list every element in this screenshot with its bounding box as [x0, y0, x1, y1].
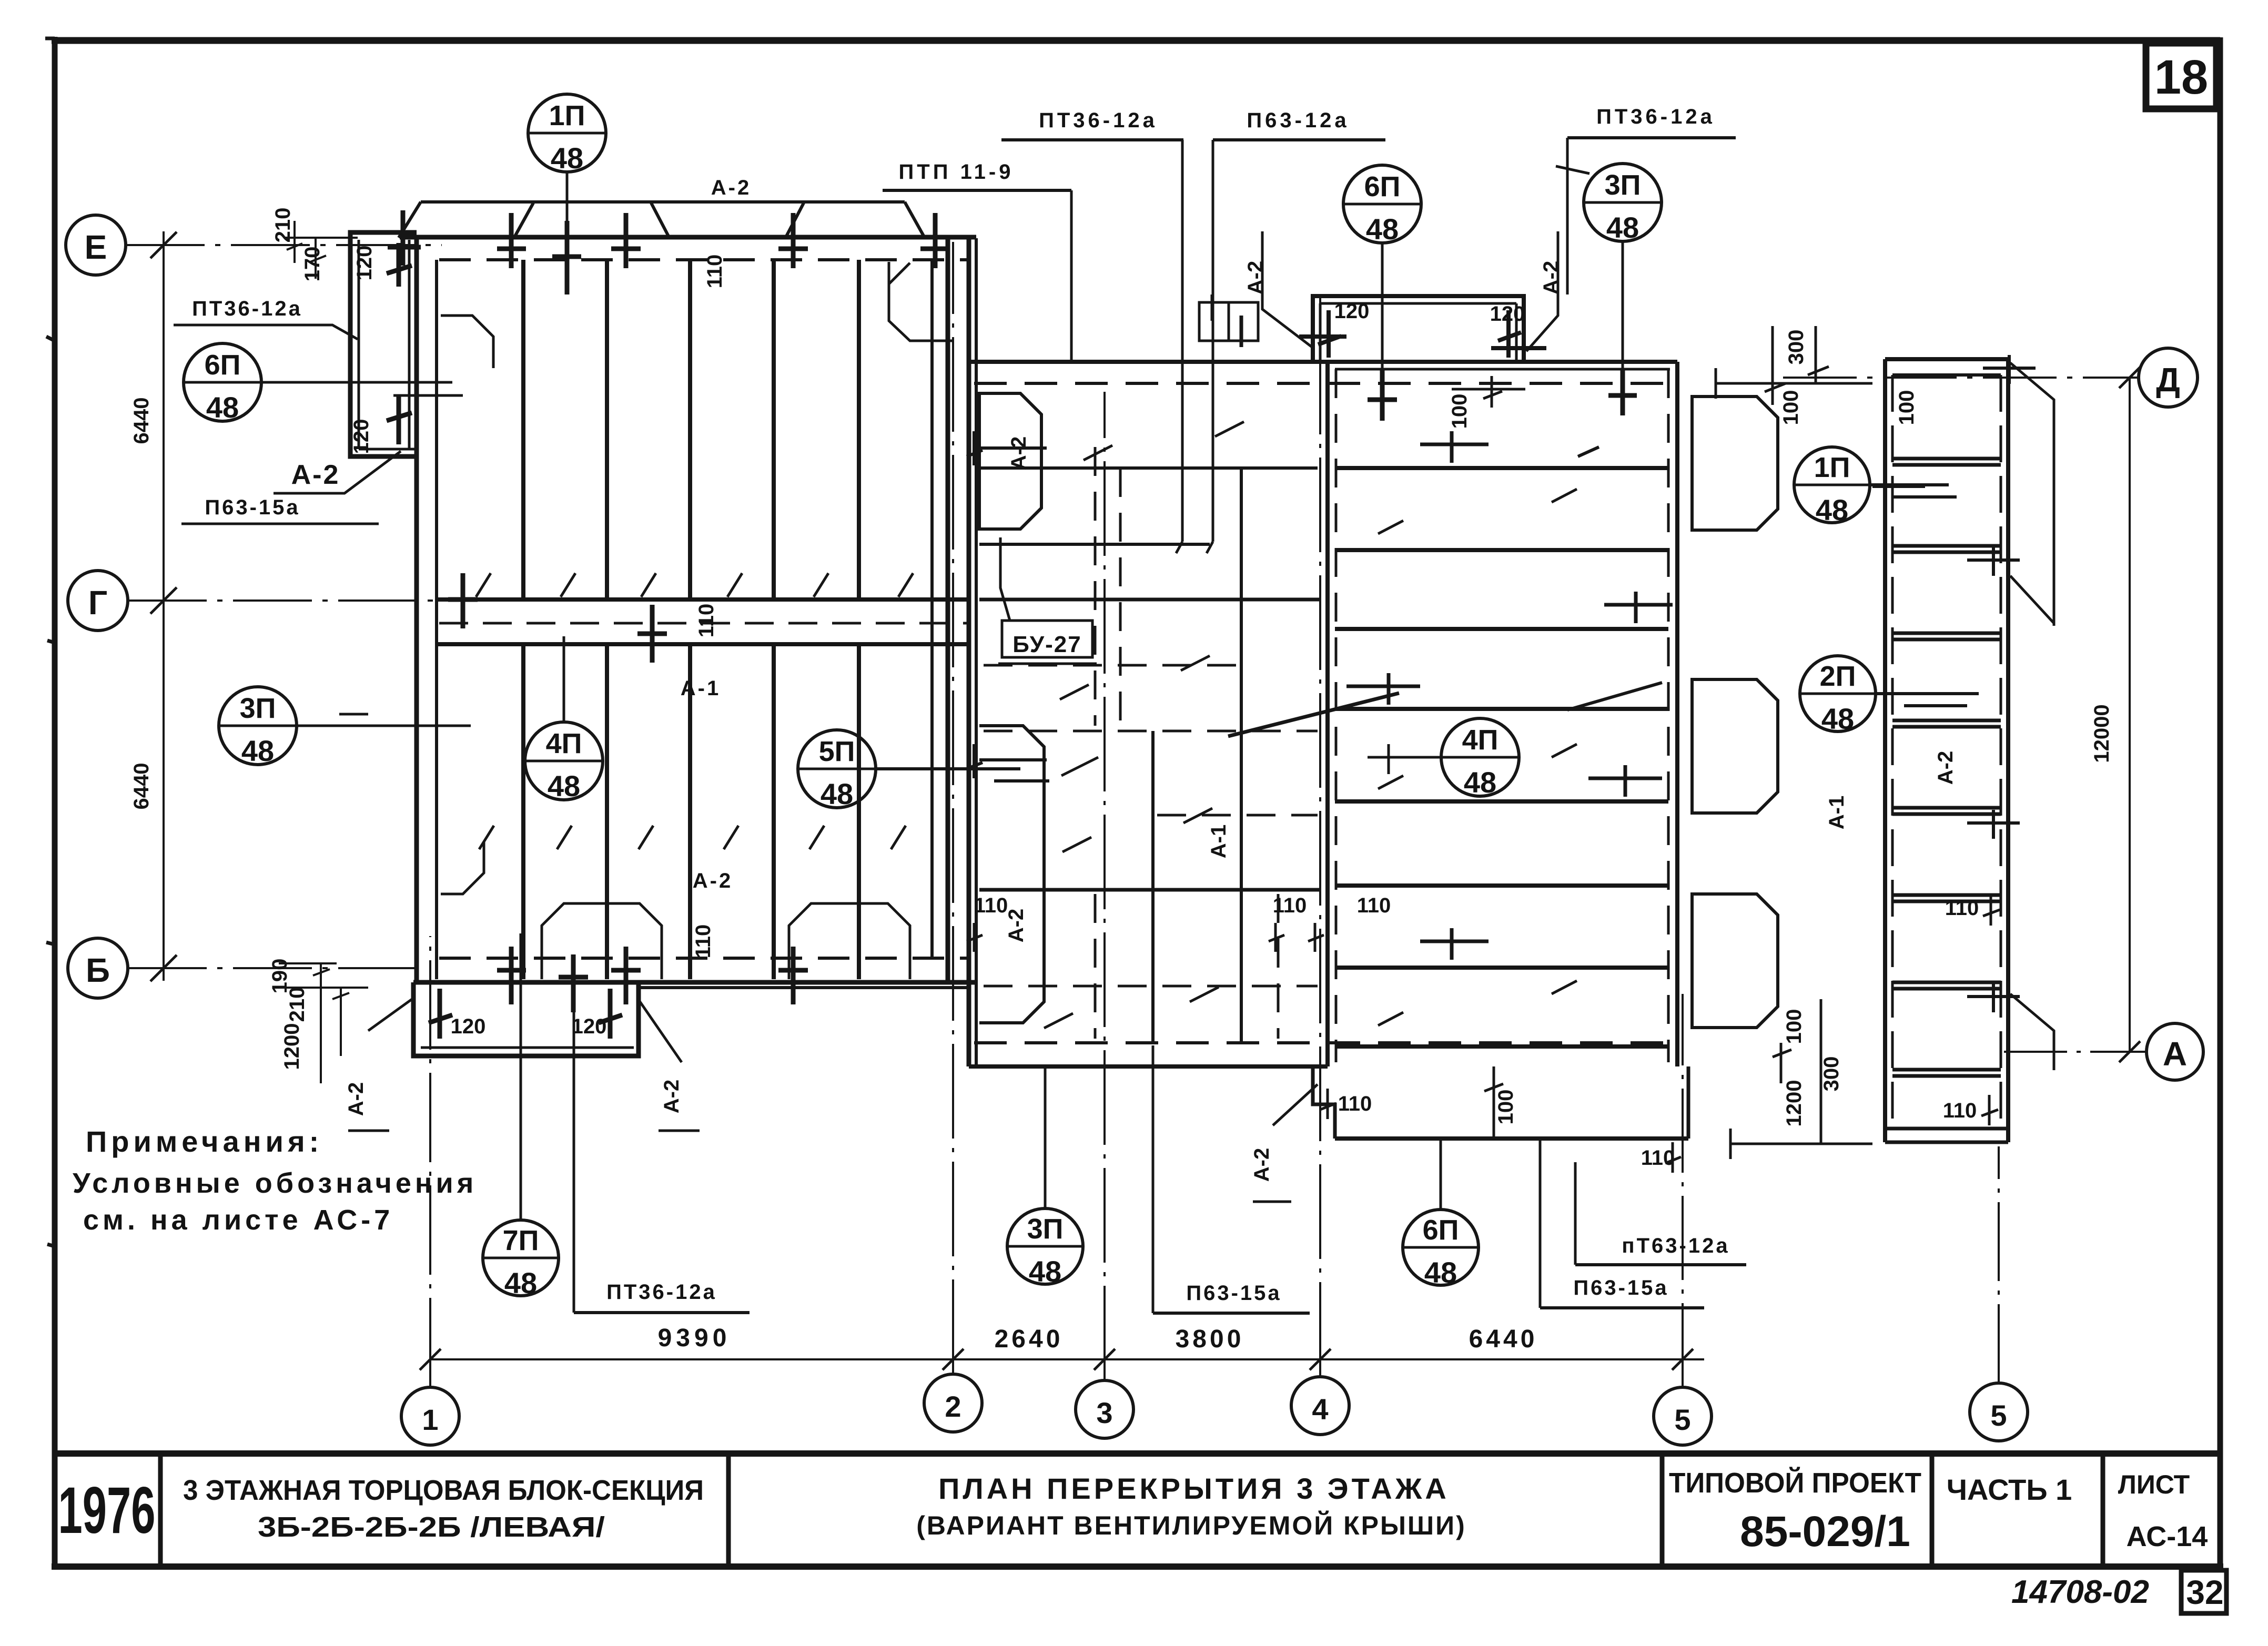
protrusion hatch right [599, 989, 622, 1039]
leader ПТП 11-9 [1070, 190, 1073, 362]
rung tick 4 [1967, 810, 2020, 839]
panel joint v4 [772, 260, 776, 979]
svg-text:А-2: А-2 [1007, 436, 1030, 470]
svg-text:120: 120 [1490, 302, 1525, 326]
bottom band right end [1687, 1066, 1690, 1139]
dim line top right [1716, 326, 1872, 405]
axis circle Д [2139, 348, 2198, 407]
rung tick 3 [1872, 485, 1925, 488]
title block top line [55, 1450, 2220, 1457]
panel joint v1 [521, 260, 525, 979]
roof joint slant 1 [514, 203, 533, 237]
leader ПТ36-12а bottom [573, 1012, 575, 1313]
svg-text:Примечания:: Примечания: [86, 1125, 323, 1158]
small box ticks [1212, 294, 1241, 347]
svg-text:4П: 4П [546, 728, 582, 759]
axis circle Е [66, 215, 126, 275]
vertical joint solid [1240, 468, 1243, 1043]
rung 2 [1892, 546, 2001, 552]
circle 7П [483, 1220, 559, 1296]
svg-text:1200: 1200 [1783, 1080, 1806, 1127]
chamfer diagonal 2 [2010, 576, 2054, 623]
svg-text:85-029/1: 85-029/1 [1740, 1508, 1910, 1556]
svg-text:4П: 4П [1462, 724, 1498, 756]
underline А-2 strip leader [274, 451, 401, 493]
right dim line 12000 [2129, 378, 2131, 1052]
rung 4 [1892, 720, 2001, 727]
circle 1П right [1794, 447, 1870, 523]
grid 4 leader [1319, 294, 1321, 1377]
right edge dashed [1667, 369, 1670, 1062]
dashed vertical 2 [1119, 468, 1122, 731]
ladder top outer [1885, 357, 2008, 361]
anchor tick b1 [497, 947, 526, 1004]
roof joint slant 3 [786, 203, 804, 237]
TITLE BLOCK [55, 1454, 2226, 1613]
rung 5 [1892, 808, 2001, 814]
leader 5П [876, 769, 1049, 781]
anchor tick t3 [552, 221, 581, 294]
LEFT BLOCK [174, 94, 1049, 1066]
svg-text:3: 3 [1096, 1396, 1112, 1429]
RIGHT BLOCK [1250, 362, 1688, 1202]
border top [52, 37, 2220, 44]
roof trapezoid left slant [399, 202, 421, 238]
dashed row 3 [984, 730, 1318, 733]
svg-text:100: 100 [1448, 394, 1471, 429]
leader П63-15а bottom2 [1539, 1140, 1542, 1308]
long diagonal 2 [1061, 757, 1098, 776]
dashed row 4 [984, 985, 1318, 988]
cell divider 5 [2101, 1454, 2105, 1567]
slash marks right block [1378, 489, 1577, 1025]
top wall [400, 235, 976, 240]
dim lines bottom right [1730, 999, 1872, 1159]
chamfer panel А-2 bottom [979, 726, 1044, 1023]
leader 1П right [1870, 485, 1957, 497]
edge tick r3 [1346, 673, 1420, 705]
right edge outer [1675, 362, 1679, 1066]
floor joint h5 [1335, 799, 1668, 804]
chamfer panel bottom left [542, 903, 662, 979]
DIMENSIONS [130, 231, 2140, 1370]
BOTTOM LABELS [1007, 1045, 1746, 1313]
svg-text:3П: 3П [1605, 169, 1641, 201]
underline пТ63-12а bottom [1575, 1263, 1746, 1266]
tick 110 ladder 1 [1983, 894, 2000, 926]
leader 4П left [563, 636, 565, 722]
bottom edge [969, 1064, 1328, 1069]
axis circle Г [68, 571, 128, 631]
svg-text:П63-12а: П63-12а [1247, 109, 1349, 132]
svg-text:110: 110 [1943, 1099, 1977, 1122]
floor joint h8 [1335, 1044, 1668, 1049]
svg-text:110: 110 [692, 924, 715, 959]
hex panel 3 [1692, 894, 1778, 1028]
svg-text:12000: 12000 [2090, 704, 2113, 763]
underline ПТ36-12а bottom [574, 1311, 750, 1314]
protrusion hatch left [429, 989, 452, 1039]
ladder left inner [1891, 375, 1894, 1129]
bold tick 3П crossing [1608, 368, 1637, 415]
edge tick r1 [1420, 431, 1489, 463]
bold tick 6П crossing [1368, 368, 1397, 421]
rung tick 1 [1983, 355, 2036, 384]
AXIS MARKS [66, 215, 2203, 1445]
joint row 2 [979, 543, 1210, 546]
cell divider 2 [726, 1454, 731, 1567]
MIDDLE SECTION [639, 294, 1676, 1066]
bottom dim line [430, 1358, 1704, 1360]
svg-text:А-2: А-2 [291, 460, 340, 490]
leader 2П right [1876, 694, 1979, 706]
roof trapezoid right slant [905, 202, 925, 238]
strip inner bottom [359, 448, 416, 451]
svg-text:(ВАРИАНТ ВЕНТИЛИРУЕМОЙ КРЫШИ): (ВАРИАНТ ВЕНТИЛИРУЕМОЙ КРЫШИ) [916, 1510, 1466, 1540]
leader 3П bottom [1044, 1069, 1047, 1208]
dashed row 5 [984, 664, 1241, 667]
svg-text:А-2: А-2 [660, 1080, 683, 1113]
rung tick 5 [1967, 983, 2020, 1012]
HEX PANELS COLUMN [1692, 397, 1979, 1028]
svg-text:2: 2 [945, 1390, 961, 1423]
underline П63-15а left [181, 523, 379, 525]
svg-text:А-1: А-1 [1207, 825, 1230, 858]
chamfer panel А-2 top [979, 393, 1041, 529]
left dim line [163, 231, 165, 981]
dashed vertical 4 [1094, 894, 1097, 1039]
bottom wall dashed inner [439, 957, 970, 960]
box hatch right [1491, 310, 1546, 358]
BOTTOM PROTRUSION [268, 933, 750, 1313]
floor joint h7 [1335, 966, 1668, 970]
Г band top line [437, 597, 969, 602]
svg-text:Б: Б [86, 951, 110, 989]
NOTES [73, 1125, 477, 1236]
svg-text:Г: Г [88, 584, 107, 622]
arrow 3П [1556, 166, 1589, 174]
svg-text:ТИПОВОЙ ПРОЕКТ: ТИПОВОЙ ПРОЕКТ [1669, 1467, 1921, 1499]
floor joint h1 [1335, 466, 1668, 470]
floor joint h2 [1335, 548, 1668, 552]
circle 3П left [219, 687, 297, 765]
А axis dashed [974, 1041, 1676, 1044]
strip inner right [408, 240, 411, 449]
axis А line [2004, 1051, 2146, 1053]
slash marks middle [1044, 422, 1244, 1028]
tick ms right [1269, 923, 1324, 952]
ladder right outer [2006, 359, 2010, 1142]
leader ПТ36-12а top2 [1566, 138, 1569, 294]
circle 6П top [1343, 165, 1421, 243]
circle 4П right [1441, 718, 1519, 796]
underline ПТ36-12а top2 [1567, 136, 1736, 139]
svg-text:110: 110 [1945, 897, 1979, 920]
chamfer diagonal 3 [2010, 994, 2054, 1070]
underline П63-15а bottom2 [1540, 1306, 1704, 1309]
left wall outer [414, 236, 419, 982]
rung tick 2 [1967, 547, 2020, 576]
grid circle 2 [924, 1374, 982, 1432]
rung 7 [1892, 982, 2001, 989]
svg-text:3П: 3П [240, 693, 276, 724]
leader 1П [566, 172, 569, 238]
svg-text:210: 210 [286, 987, 309, 1022]
svg-text:А-2: А-2 [345, 1082, 368, 1116]
strip inner left [358, 240, 360, 449]
panel joint v2 [605, 260, 609, 979]
svg-text:120: 120 [350, 419, 373, 454]
leader А-2 below left [348, 998, 413, 1131]
svg-text:Условные обозначения: Условные обозначения [73, 1167, 477, 1199]
svg-text:48: 48 [206, 391, 239, 424]
svg-text:48: 48 [1464, 766, 1496, 799]
bottom notch [1313, 1066, 1335, 1139]
svg-text:300: 300 [1820, 1056, 1843, 1092]
svg-text:А-1: А-1 [681, 677, 721, 700]
svg-text:100: 100 [1494, 1090, 1517, 1125]
circle 3П top [1584, 164, 1662, 241]
page box 32 [2181, 1570, 2226, 1613]
svg-text:6440: 6440 [130, 398, 153, 444]
cell divider 3 [1660, 1454, 1665, 1567]
svg-text:48: 48 [1366, 212, 1399, 246]
left dim ticks [150, 232, 177, 981]
protrusion inner bottom [421, 1046, 634, 1049]
box hatch left [1299, 310, 1346, 358]
TOP PROTRUSION [1244, 231, 1563, 362]
right wall 3 [967, 238, 971, 1066]
circle 5П [798, 730, 876, 808]
svg-text:1П: 1П [549, 100, 585, 131]
tick 110 ladder 2 [1981, 1095, 1998, 1125]
cell divider 4 [1930, 1454, 1935, 1567]
svg-text:2640: 2640 [995, 1325, 1064, 1353]
panel joint v3 [688, 260, 692, 979]
chamfer panel top right [889, 262, 953, 341]
leader А-2 below right [637, 998, 700, 1131]
anchor tick b2 [559, 954, 588, 1012]
tick ms left [967, 923, 983, 952]
svg-text:110: 110 [1338, 1092, 1372, 1115]
svg-text:1976: 1976 [58, 1474, 156, 1547]
svg-text:ПТ36-12а: ПТ36-12а [192, 297, 302, 320]
grid circle 1 [401, 1387, 459, 1445]
svg-text:48: 48 [1606, 211, 1639, 244]
dim ticks bottom left [279, 963, 368, 1083]
grid circle 3 [1076, 1380, 1133, 1438]
svg-text:ПЛАН ПЕРЕКРЫТИЯ 3 ЭТАЖА: ПЛАН ПЕРЕКРЫТИЯ 3 ЭТАЖА [938, 1472, 1450, 1505]
left edge outer [1325, 362, 1330, 1066]
svg-text:14708-02: 14708-02 [2011, 1574, 2149, 1610]
strip hatch bottom [387, 394, 412, 444]
border right [2218, 37, 2223, 1569]
leader 6П bottom [1440, 1140, 1442, 1210]
svg-text:Е: Е [85, 228, 107, 266]
tick mid top [967, 431, 1047, 465]
box inner right [1515, 303, 1518, 362]
anchor tick g1 [448, 573, 478, 628]
anchor tick g2 [637, 605, 667, 663]
dashed vertical 3 [1277, 894, 1280, 1039]
underline ПТ36-12а left [174, 325, 358, 339]
БУ-27 leader [1000, 537, 1010, 621]
leader П63-15а bottom1 [1152, 1045, 1155, 1313]
svg-text:А-1: А-1 [1825, 796, 1848, 829]
svg-text:48: 48 [821, 777, 853, 810]
strip outline [350, 232, 417, 456]
svg-text:2П: 2П [1820, 661, 1856, 692]
svg-text:100: 100 [1895, 390, 1918, 425]
svg-text:300: 300 [1785, 330, 1808, 365]
svg-text:6440: 6440 [130, 763, 153, 810]
svg-text:6П: 6П [205, 349, 241, 381]
ladder top inner [1892, 373, 2001, 377]
leader 6П top [1381, 243, 1384, 399]
svg-text:АС-14: АС-14 [2127, 1521, 2208, 1552]
TOP LABELS [883, 105, 1736, 542]
sheet number box 18 [2146, 43, 2216, 109]
grid 3 leader [1103, 392, 1106, 1380]
LADDER BLOCK [1872, 355, 2054, 1142]
right wall 1 [930, 260, 934, 958]
chamfer panel bottom right [789, 903, 910, 979]
axis Б line [128, 967, 416, 969]
panel joint v5 [857, 260, 861, 979]
circle 3П bottom [1007, 1208, 1083, 1284]
svg-text:см. на листе АС-7: см. на листе АС-7 [83, 1204, 393, 1236]
edge tick r4 [1588, 765, 1662, 797]
svg-text:1: 1 [422, 1403, 438, 1436]
left edge dashed [1335, 369, 1338, 1062]
svg-text:110: 110 [695, 604, 718, 638]
dim ticks top strip [284, 221, 358, 279]
svg-text:5П: 5П [819, 736, 855, 767]
floor joint h6 [1335, 883, 1668, 888]
right dim ticks [2119, 367, 2140, 1062]
svg-text:120: 120 [572, 1015, 607, 1038]
svg-text:ПТ36-12а: ПТ36-12а [606, 1281, 717, 1304]
grid 5b leader [1998, 1146, 2000, 1383]
svg-text:9390: 9390 [658, 1324, 731, 1352]
svg-text:7П: 7П [503, 1225, 539, 1256]
RIGHT DIMS [1448, 326, 1918, 1159]
svg-text:ПТ36-12а: ПТ36-12а [1039, 109, 1158, 132]
svg-text:48: 48 [1821, 702, 1854, 735]
right wall 4 [975, 238, 978, 1066]
svg-text:ПТП 11-9: ПТП 11-9 [899, 160, 1014, 184]
svg-text:А-2: А-2 [1250, 1148, 1273, 1182]
svg-text:А-2: А-2 [1005, 909, 1028, 942]
protrusion outline [413, 982, 639, 1056]
svg-text:1200: 1200 [280, 1023, 303, 1070]
svg-text:32: 32 [2186, 1573, 2223, 1611]
svg-text:Д: Д [2156, 361, 2180, 399]
underline ПТ36-12а top1 [1001, 138, 1183, 141]
chamfer panel mid left lower [441, 841, 484, 894]
right wall 2 [946, 237, 950, 982]
svg-text:110: 110 [703, 255, 726, 289]
svg-text:ЛИСТ: ЛИСТ [2118, 1470, 2190, 1499]
svg-text:48: 48 [1029, 1255, 1061, 1288]
underline П63-15а bottom1 [1153, 1312, 1310, 1315]
svg-text:6П: 6П [1364, 171, 1401, 202]
chamfer diagonal 1 [2010, 363, 2054, 626]
horizontal joint 1 [979, 598, 1320, 602]
edge tick r5 [1420, 928, 1489, 960]
circle 2П right [1800, 656, 1876, 731]
box inner left [1319, 303, 1322, 362]
БУ-27 box [1002, 621, 1092, 657]
svg-text:А-2: А-2 [711, 176, 751, 199]
dashed vertical 1 [1094, 447, 1097, 726]
leader А-2 box right [1526, 231, 1558, 351]
leader А-2 rb bottom [1253, 1084, 1318, 1202]
circle 4П left [525, 722, 603, 800]
svg-text:48: 48 [551, 141, 583, 175]
svg-text:А: А [2163, 1035, 2187, 1073]
axis Д line [1783, 377, 2139, 379]
grid 5 leader [1682, 994, 1684, 1387]
svg-text:120: 120 [353, 246, 376, 281]
svg-text:6П: 6П [1423, 1214, 1459, 1246]
grid circle 5 [1654, 1387, 1712, 1445]
anchor tick b4 [778, 947, 808, 1004]
svg-text:ПТ36-12а: ПТ36-12а [1596, 105, 1715, 128]
svg-text:4: 4 [1312, 1393, 1328, 1426]
border left [52, 37, 58, 1569]
svg-text:170: 170 [301, 247, 324, 282]
svg-text:120: 120 [1334, 300, 1370, 323]
leader пТ63-12а bottom [1574, 1162, 1577, 1265]
leader 7П [520, 933, 522, 1220]
svg-text:6440: 6440 [1469, 1325, 1538, 1353]
underline ПТП 11-9 [883, 189, 1071, 192]
box inner top [1320, 302, 1516, 305]
svg-text:П63-15а: П63-15а [1573, 1276, 1668, 1299]
top wall dashed inner [439, 258, 970, 261]
grid 1 leader [429, 936, 431, 1387]
ladder right inner [2000, 375, 2002, 1129]
TOP LEFT STRIP [271, 208, 417, 456]
floor joint h3 [1335, 627, 1668, 631]
box outline [1313, 296, 1524, 362]
svg-text:1П: 1П [1814, 452, 1850, 483]
top edge [969, 360, 1328, 364]
grid circle 4 [1291, 1377, 1349, 1435]
svg-text:5: 5 [1674, 1403, 1690, 1436]
border bottom [52, 1563, 2223, 1570]
tick 110 rb [1320, 1089, 1336, 1119]
top edge inner [1335, 368, 1670, 371]
axis Е line [126, 244, 442, 246]
tick 110 rb2 [1665, 1142, 1681, 1173]
bottom wall [413, 980, 976, 985]
svg-text:48: 48 [548, 769, 580, 802]
horizontal joint 2 [979, 888, 1320, 892]
grid 2 leader [952, 242, 954, 1374]
leader 3П top [1622, 241, 1624, 371]
leader 6П left [261, 382, 463, 395]
svg-text:пТ63-12а: пТ63-12а [1622, 1234, 1729, 1257]
anchor tick t4 [611, 213, 641, 268]
ladder left outer [1883, 359, 1887, 1142]
svg-text:БУ-27: БУ-27 [1012, 632, 1082, 657]
anchor tick t6 [920, 213, 950, 268]
edge tick r6 [1604, 592, 1673, 623]
svg-text:100: 100 [1783, 1009, 1806, 1044]
Д axis dashed [974, 382, 1676, 385]
